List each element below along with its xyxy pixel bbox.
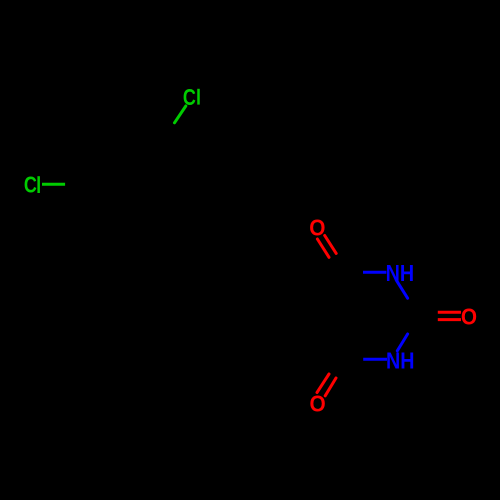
svg-text:C: C xyxy=(24,172,37,198)
svg-text:O: O xyxy=(309,215,325,241)
bond C-Cl (top chlorine half-bond) xyxy=(175,106,186,123)
svg-text:NH: NH xyxy=(386,260,415,286)
svg-text:O: O xyxy=(310,391,326,417)
svg-text:NH: NH xyxy=(386,347,415,373)
double bond C4=O (top carbonyl, line b) xyxy=(325,236,337,254)
bond N3-C2 (half-bond, diagonal) xyxy=(396,280,407,298)
bond C4-N3 (half-bond, horizontal) xyxy=(363,271,386,274)
double bond C6=O (bottom carbonyl, line b) xyxy=(325,378,336,396)
double bond C4=O (top carbonyl, line a) xyxy=(317,239,329,257)
bond C2-N1 (half-bond, diagonal) xyxy=(397,334,407,351)
bond N1-C6 (half-bond, horizontal) xyxy=(363,358,387,361)
double bond C2=O (right carbonyl, line b) xyxy=(438,318,461,321)
svg-text:O: O xyxy=(461,303,477,329)
double bond C2=O (right carbonyl, line a) xyxy=(438,311,461,314)
double bond C6=O (bottom carbonyl, line a) xyxy=(317,374,329,393)
svg-text:C: C xyxy=(183,84,196,110)
bond C-Cl (left chlorine half-bond) xyxy=(42,183,65,186)
